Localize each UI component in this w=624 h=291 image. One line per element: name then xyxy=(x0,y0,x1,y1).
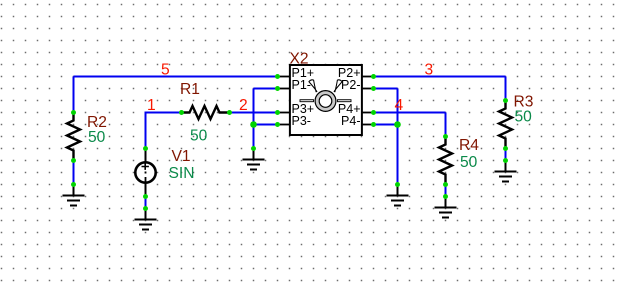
node dot P2+ xyxy=(371,74,376,79)
svg-text:P1-: P1- xyxy=(292,78,311,92)
node dot V1 top xyxy=(143,146,148,151)
node dot R4 bottom xyxy=(443,182,448,187)
svg-text:R4: R4 xyxy=(459,137,479,154)
subcircuit X2 box xyxy=(290,65,362,135)
node dot P3+ xyxy=(275,110,280,115)
ground under P1-/P3- branch xyxy=(243,149,265,170)
svg-text:X2: X2 xyxy=(290,51,309,68)
resistor R3 xyxy=(499,101,512,149)
wire node 1 horizontal V1 to R1 xyxy=(146,112,182,114)
X2 pin stub P3- xyxy=(278,124,291,126)
wire V1 bottom to ground xyxy=(145,197,147,209)
node dot R2 top xyxy=(71,110,76,115)
svg-text:P2-: P2- xyxy=(341,78,360,92)
node dot ground right branch xyxy=(395,182,400,187)
node dot R1 right xyxy=(227,110,232,115)
node dot P1+ xyxy=(275,74,280,79)
wire node 2 R1 to P3+ xyxy=(230,112,278,114)
junction dot at P4- branch xyxy=(394,121,401,128)
node dot P4+ xyxy=(371,110,376,115)
wire node 3 horizontal P2+ to R3 column xyxy=(374,76,506,78)
svg-text:V1: V1 xyxy=(172,148,191,165)
X2 pin stub P2- xyxy=(362,88,374,90)
node dot R3 bottom xyxy=(503,146,508,151)
wire R3 bottom to ground xyxy=(505,149,507,161)
wire P4- to junction xyxy=(374,124,398,126)
svg-text:P3-: P3- xyxy=(292,114,311,128)
resistor R1 xyxy=(182,106,230,119)
wire node 3 vertical down to R3 xyxy=(505,77,507,101)
wire node 4 vertical down to R4 xyxy=(445,113,447,137)
wire P2- branch vertical to ground xyxy=(397,89,399,185)
wire P1- branch vertical to ground xyxy=(253,89,255,149)
X2 pin stub P3+ xyxy=(278,112,291,114)
pin connection dots xyxy=(71,74,508,211)
X2 pin stub P4+ xyxy=(362,112,374,114)
node dot R1 left xyxy=(179,110,184,115)
resistor R2 xyxy=(67,113,80,161)
ground under R2 xyxy=(63,185,85,206)
wire node 1 vertical down to V1 xyxy=(145,112,147,149)
resistor R4 xyxy=(439,137,452,185)
svg-text:R1: R1 xyxy=(180,81,200,98)
X2 internal symbol (toroid with leads) xyxy=(300,80,351,112)
svg-text:SIN: SIN xyxy=(169,165,195,182)
svg-text:50: 50 xyxy=(88,129,106,146)
node dot V1 ground xyxy=(143,206,148,211)
wire P3- to junction xyxy=(254,124,278,126)
wire node 4 horizontal P4+ to R4 column xyxy=(374,112,446,114)
node dot R2 bottom xyxy=(71,158,76,163)
svg-text:50: 50 xyxy=(460,154,478,171)
svg-text:1: 1 xyxy=(147,97,156,114)
junction dot at P3- branch xyxy=(250,121,257,128)
svg-text:3: 3 xyxy=(425,62,434,79)
X2 pin stub P1- xyxy=(278,88,291,90)
wire P1- branch horizontal xyxy=(254,88,278,90)
svg-text:2: 2 xyxy=(239,97,248,114)
ground under R4 xyxy=(435,197,457,218)
node dot R4 top xyxy=(443,134,448,139)
node dot P1- xyxy=(275,86,280,91)
wire P2- branch horizontal xyxy=(374,88,398,90)
node dot P2- xyxy=(371,86,376,91)
node dot R4 ground xyxy=(443,194,448,199)
svg-text:5: 5 xyxy=(161,62,170,79)
X2 pin stub P4- xyxy=(362,124,374,126)
wire R4 bottom to ground xyxy=(445,185,447,197)
X2 pin stub P2+ xyxy=(362,76,374,78)
wire node 5 vertical down to R2 xyxy=(73,77,75,113)
node dot R2 ground xyxy=(71,182,76,187)
node dot P4- xyxy=(371,122,376,127)
svg-text:4: 4 xyxy=(395,97,404,114)
node dot R3 top xyxy=(503,98,508,103)
ground under V1 xyxy=(135,209,157,230)
svg-text:50: 50 xyxy=(515,109,533,126)
node dot R3 ground xyxy=(503,158,508,163)
X2 pin stub P1+ xyxy=(278,76,291,78)
node dot ground left branch xyxy=(251,146,256,151)
ground under R3 xyxy=(495,161,517,182)
node dot P3- xyxy=(275,122,280,127)
node dot V1 bottom xyxy=(143,194,148,199)
wire R2 bottom to ground xyxy=(73,161,75,185)
wire node 5 horizontal from left corner to P1+ xyxy=(74,76,278,78)
ground under P2-/P4- branch xyxy=(387,185,409,206)
voltage source V1 xyxy=(135,149,155,197)
svg-text:50: 50 xyxy=(190,128,208,145)
svg-text:P4-: P4- xyxy=(341,114,360,128)
